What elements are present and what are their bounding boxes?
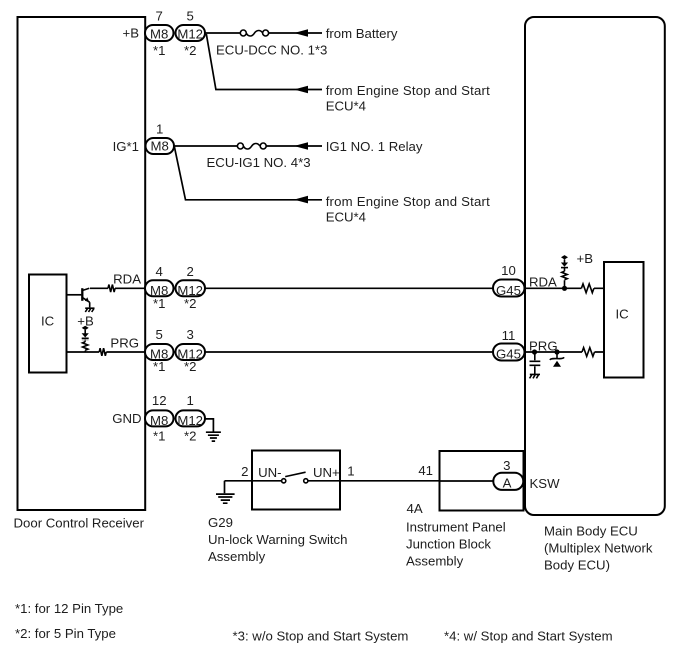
svg-text:RDA: RDA: [529, 274, 557, 289]
svg-text:2: 2: [187, 264, 194, 279]
svg-text:+B: +B: [577, 251, 594, 266]
svg-text:Assembly: Assembly: [208, 549, 266, 564]
svg-text:+B: +B: [77, 314, 94, 329]
svg-text:IG*1: IG*1: [113, 139, 139, 154]
svg-text:5: 5: [187, 9, 194, 24]
svg-text:(Multiplex Network: (Multiplex Network: [544, 541, 653, 556]
svg-text:7: 7: [156, 9, 163, 24]
svg-text:IG1 NO. 1 Relay: IG1 NO. 1 Relay: [326, 139, 423, 154]
svg-text:11: 11: [502, 328, 516, 343]
svg-text:*3: w/o Stop and Start System: *3: w/o Stop and Start System: [233, 629, 409, 644]
svg-text:5: 5: [156, 327, 163, 342]
svg-text:3: 3: [503, 458, 510, 473]
svg-text:2: 2: [241, 464, 248, 479]
svg-text:from Engine Stop and Start: from Engine Stop and Start: [326, 83, 490, 98]
svg-text:*1: for 12 Pin Type: *1: for 12 Pin Type: [15, 601, 123, 616]
svg-text:*2: *2: [184, 43, 196, 58]
svg-text:1: 1: [187, 393, 194, 408]
svg-text:A: A: [503, 476, 512, 491]
svg-text:M12: M12: [177, 27, 203, 42]
svg-text:RDA: RDA: [113, 272, 141, 287]
svg-text:12: 12: [152, 393, 167, 408]
svg-text:GND: GND: [112, 411, 141, 426]
svg-text:from Battery: from Battery: [326, 26, 398, 41]
svg-text:*1: *1: [153, 296, 165, 311]
svg-text:M12: M12: [177, 413, 203, 428]
svg-text:UN+: UN+: [313, 465, 340, 480]
svg-text:41: 41: [418, 463, 433, 478]
svg-text:*1: *1: [153, 43, 165, 58]
svg-text:G45: G45: [496, 283, 521, 298]
svg-text:M8: M8: [150, 27, 168, 42]
svg-text:M8: M8: [151, 138, 169, 153]
svg-text:from Engine Stop and Start: from Engine Stop and Start: [326, 194, 490, 209]
svg-text:Junction Block: Junction Block: [406, 537, 491, 552]
svg-text:PRG: PRG: [110, 336, 139, 351]
svg-text:Instrument Panel: Instrument Panel: [406, 520, 506, 535]
svg-text:*1: *1: [153, 359, 165, 374]
svg-text:*4: w/ Stop and Start System: *4: w/ Stop and Start System: [444, 629, 613, 644]
svg-text:*2: *2: [184, 296, 196, 311]
svg-text:ECU*4: ECU*4: [326, 98, 366, 113]
svg-text:G45: G45: [496, 347, 521, 362]
svg-text:4A: 4A: [407, 501, 423, 516]
svg-text:Body ECU): Body ECU): [544, 558, 610, 573]
svg-text:M8: M8: [150, 413, 168, 428]
svg-text:*2: for 5 Pin Type: *2: for 5 Pin Type: [15, 626, 116, 641]
svg-text:ECU-IG1 NO. 4*3: ECU-IG1 NO. 4*3: [207, 155, 311, 170]
svg-text:G29: G29: [208, 515, 233, 530]
svg-text:*1: *1: [153, 428, 165, 443]
svg-text:Un-lock Warning Switch: Un-lock Warning Switch: [208, 532, 348, 547]
svg-text:Assembly: Assembly: [406, 554, 464, 569]
svg-text:1: 1: [347, 463, 354, 478]
svg-text:Main Body ECU: Main Body ECU: [544, 524, 638, 539]
svg-text:Door Control Receiver: Door Control Receiver: [14, 516, 145, 531]
svg-text:4: 4: [156, 264, 163, 279]
svg-text:KSW: KSW: [530, 476, 561, 491]
svg-text:IC: IC: [41, 314, 55, 329]
svg-text:UN-: UN-: [258, 465, 281, 480]
svg-text:+B: +B: [123, 26, 140, 41]
svg-text:ECU-DCC NO. 1*3: ECU-DCC NO. 1*3: [216, 43, 327, 58]
svg-text:1: 1: [156, 122, 163, 137]
svg-text:3: 3: [187, 327, 194, 342]
svg-text:IC: IC: [616, 307, 630, 322]
svg-text:*2: *2: [184, 359, 196, 374]
svg-text:ECU*4: ECU*4: [326, 209, 366, 224]
svg-text:*2: *2: [184, 428, 196, 443]
svg-text:10: 10: [501, 263, 516, 278]
